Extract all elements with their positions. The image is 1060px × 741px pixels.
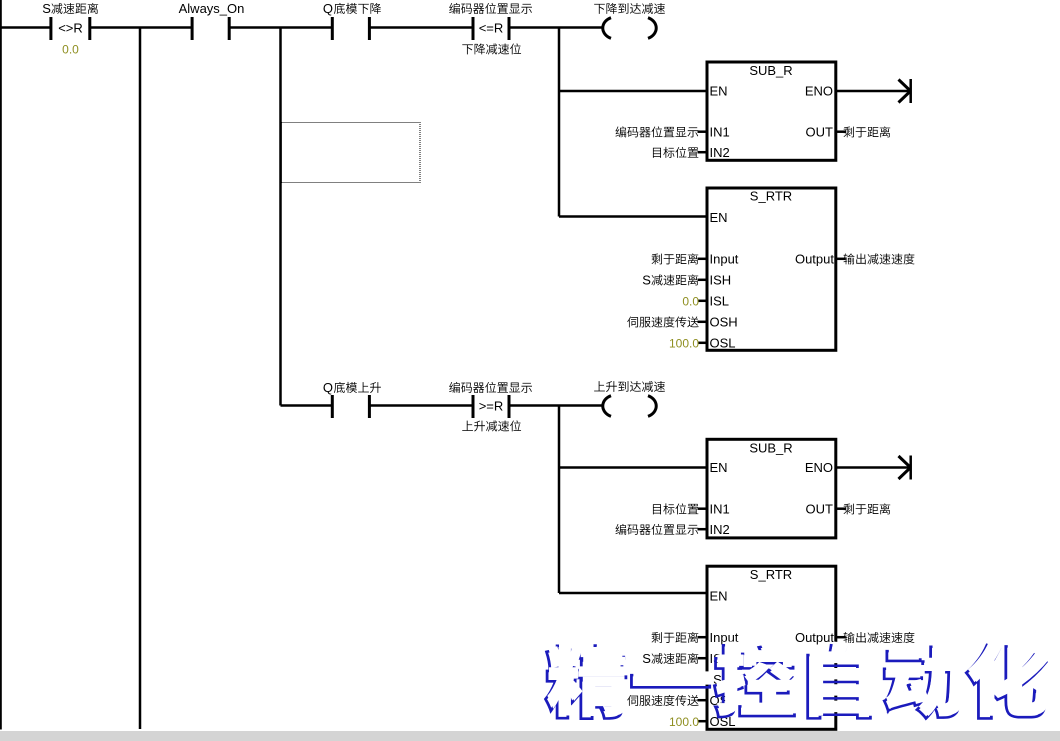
contact Q底模下降 [331, 17, 371, 40]
pin tick Input U2 [698, 258, 706, 261]
svg-text:Output: Output [795, 630, 834, 645]
wire EN2 branch to SUB_R2 [559, 466, 706, 469]
label 下降减速位 [462, 43, 521, 54]
svg-text:IN1: IN1 [710, 502, 730, 517]
contact compare S减速距离 <>R [49, 17, 91, 40]
svg-text:EN: EN [710, 460, 728, 475]
svg-text:OSL: OSL [710, 336, 736, 351]
junction branch x=140 full height [139, 28, 142, 730]
label 目标位置 IN2 U1 [653, 147, 698, 158]
svg-text:Always_On: Always_On [179, 1, 245, 16]
label 目标位置 IN1 U3 [653, 503, 698, 514]
label Q底模上升 [323, 380, 381, 395]
svg-text:EN: EN [710, 210, 728, 225]
arrow open rung1 [899, 79, 912, 103]
label 剩于距离 Input U2 [652, 253, 699, 264]
pin tick OSH U2 [698, 321, 706, 324]
label 剩于距离 OUT U1 [844, 126, 891, 137]
arrow open rung2 [899, 456, 912, 480]
pin tick OSL U4 [698, 720, 706, 723]
pin tick ISH U4 [698, 657, 706, 660]
wire rung1 Q底模下降 to compare contact [369, 26, 473, 29]
svg-text:SUB_R: SUB_R [749, 441, 792, 456]
contact Always_On [191, 17, 231, 40]
svg-text:OUT: OUT [806, 502, 834, 517]
svg-text:0.0: 0.0 [682, 295, 699, 309]
svg-text:Output: Output [795, 252, 834, 267]
pin tick Input U4 [698, 636, 706, 639]
svg-text:0.0: 0.0 [62, 43, 79, 57]
pin tick ISL U2 [698, 300, 706, 303]
contact Q底模上升 [331, 395, 371, 418]
label Always_On [179, 1, 245, 16]
label 伺服速度传送 OSH U4 [627, 695, 698, 706]
pin tick OUT U1 [837, 130, 846, 133]
value 0.0 ISL U2 [682, 295, 699, 309]
svg-text:IN2: IN2 [710, 522, 730, 537]
pin tick OUT U3 [837, 507, 846, 510]
svg-text:S_RTR: S_RTR [750, 189, 792, 204]
svg-text:EN: EN [710, 84, 728, 99]
label 编码器位置显示 IN2 U3 [615, 524, 698, 535]
watermark 精一控自动化 white face [548, 642, 1049, 716]
coil 上升到达减速 [603, 396, 656, 417]
op block U1 SUB_R [707, 62, 836, 160]
pin tick IN2 U3 [698, 528, 706, 531]
svg-text:<>R: <>R [58, 20, 83, 35]
pin tick Output U2 [837, 258, 846, 261]
label 下降到达减速 [594, 3, 665, 14]
svg-text:IN1: IN1 [710, 125, 730, 140]
wire ENO1 to arrow [837, 90, 910, 93]
contact compare 编码器位置显示 <=R [472, 17, 511, 40]
selection box dotted [282, 123, 421, 183]
wire EN1 branch to SUB_R box [559, 90, 706, 93]
pin tick IN2 U1 [698, 151, 706, 154]
junction branch x=559 net2 down [558, 406, 561, 594]
svg-text:Input: Input [710, 252, 739, 267]
wire ENO2 to arrow [837, 466, 910, 469]
svg-text:SUB_R: SUB_R [749, 63, 792, 78]
wire rung2 compare to coil [509, 404, 604, 407]
svg-text:S: S [42, 1, 51, 16]
svg-text:100.0: 100.0 [669, 715, 699, 729]
value 100.0 OSL U4 [669, 715, 699, 729]
svg-text:S: S [642, 273, 651, 288]
wire rung2 elbow to Q底模上升 [281, 404, 333, 407]
wire rung1 compare to coil [509, 26, 604, 29]
label 编码器位置显示 net2 [449, 382, 532, 393]
pin tick ISH U2 [698, 279, 706, 282]
label S减速距离 ISH U4 [642, 651, 698, 666]
label 伺服速度传送 OSH U2 [627, 316, 698, 327]
value 0.0 [62, 43, 79, 57]
label 上升减速位 [462, 420, 521, 431]
value 100.0 OSL U2 [669, 337, 699, 351]
coil 下降到达减速 [603, 18, 656, 39]
svg-text:S: S [642, 651, 651, 666]
wire branch to S_RTR2 EN [559, 592, 706, 595]
label 输出减速速度 Output U2 [844, 253, 915, 264]
pin tick ISL U4 [698, 678, 706, 681]
svg-text:Q: Q [323, 380, 333, 395]
wire rung2 to compare [369, 404, 473, 407]
wire rung1 Always_On to Q底模下降 [229, 26, 332, 29]
value 0.0 ISL U4 [682, 673, 699, 687]
svg-text:ENO: ENO [805, 460, 833, 475]
watermark 精一控自动化 blue shadow [546, 645, 1047, 719]
label S减速距离 ISH U2 [642, 273, 698, 288]
label S减速距离 [42, 1, 98, 16]
pin tick Output U4 [837, 636, 846, 639]
op block U4 S_RTR [707, 566, 836, 729]
pin tick IN1 U3 [698, 507, 706, 510]
contact compare 编码器位置显示 >=R [472, 395, 511, 418]
junction branch x=559 net1 down to S_RTR EN [558, 28, 561, 217]
label 编码器位置显示 [449, 3, 532, 14]
svg-text:IN2: IN2 [710, 145, 730, 160]
op block U2 S_RTR [707, 188, 836, 351]
svg-text:EN: EN [710, 589, 728, 604]
svg-text:OUT: OUT [806, 125, 834, 140]
svg-text:>=R: >=R [479, 398, 504, 413]
wire rung1 contact1 to Always_On [90, 26, 192, 29]
label 编码器位置显示 IN1 U1 [615, 126, 698, 137]
svg-text:ENO: ENO [805, 84, 833, 99]
svg-text:ISL: ISL [710, 294, 730, 309]
svg-text:S_RTR: S_RTR [750, 567, 792, 582]
label 剩于距离 OUT U3 [844, 503, 891, 514]
label 剩于距离 Input U4 [652, 632, 699, 643]
label Q底模下降 [323, 1, 381, 16]
pin tick IN1 U1 [698, 130, 706, 133]
svg-text:Q: Q [323, 1, 333, 16]
label 输出减速速度 Output U4 [844, 632, 915, 643]
svg-text:ISH: ISH [710, 273, 732, 288]
label 上升到达减速 [594, 381, 665, 392]
svg-text:100.0: 100.0 [669, 337, 699, 351]
junction branch x=280.5 down to rung2 [279, 28, 282, 406]
wire rung1 segment rail to contact1 [0, 26, 50, 29]
pin tick OSL U2 [698, 342, 706, 345]
svg-text:<=R: <=R [479, 20, 504, 35]
pin tick OSH U4 [698, 699, 706, 702]
wire branch x=559 down to S_RTR1 EN [559, 215, 706, 218]
left power rail [0, 0, 2, 730]
op block U3 SUB_R [707, 439, 836, 538]
svg-text:OSH: OSH [710, 315, 738, 330]
scrollbar bottom [0, 731, 1060, 741]
